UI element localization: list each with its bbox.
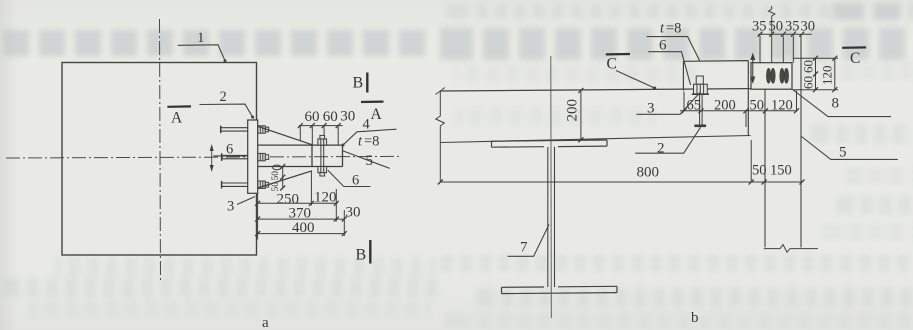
- seat bolt (fig a): [318, 135, 327, 176]
- nut and bolt end row 3: [258, 181, 269, 188]
- bracket plate (fig b elevation): [683, 61, 748, 136]
- end plate (fig b top view): [751, 63, 792, 89]
- svg-text:35: 35: [785, 19, 800, 35]
- bracket gusset bottom edge: [258, 171, 312, 188]
- double-headed arrow at plate: [750, 53, 755, 85]
- bracket gusset top edge: [258, 126, 312, 144]
- svg-text:50: 50: [769, 19, 784, 35]
- beam stub horizontal lines: [258, 145, 343, 166]
- svg-text:50: 50: [271, 182, 281, 192]
- svg-text:2: 2: [220, 89, 227, 105]
- girder top flange: [492, 140, 608, 147]
- nut and bolt end row 1: [258, 126, 269, 133]
- svg-text:60: 60: [801, 76, 816, 89]
- section mark A-A (right): [361, 102, 384, 123]
- wall bottom break: [764, 245, 818, 253]
- svg-text:50: 50: [271, 171, 281, 181]
- svg-text:B: B: [356, 247, 367, 264]
- section mark A-A (inside wall): [167, 106, 191, 126]
- svg-text:B: B: [353, 75, 364, 92]
- t=8 label (fig b) with leader: [647, 21, 700, 61]
- svg-text:8: 8: [832, 96, 840, 112]
- beam seat box: [312, 145, 343, 166]
- nut and bolt end row 2: [258, 153, 269, 160]
- svg-text:30: 30: [801, 19, 816, 35]
- svg-text:C: C: [607, 56, 617, 73]
- svg-text:50: 50: [750, 98, 765, 114]
- label 3 with leader: [227, 197, 255, 215]
- label 7 with leader: [508, 225, 549, 257]
- label 1 with leader: [178, 30, 227, 62]
- dimension row 370 30: [255, 205, 360, 222]
- label 4 with leader: [342, 117, 397, 147]
- label 2 with leader: [200, 89, 255, 119]
- caption b: [691, 310, 699, 326]
- svg-text:400: 400: [292, 220, 315, 236]
- svg-text:t: t: [660, 21, 665, 37]
- section mark C (right): [842, 47, 866, 67]
- beam left break line: [436, 88, 446, 183]
- wall front face line: [764, 89, 766, 247]
- bolt (fig b) head, nut and shank: [692, 76, 709, 127]
- dimension 35 50 35 30 (top right): [752, 19, 815, 63]
- svg-text:A: A: [171, 110, 183, 127]
- svg-text:120: 120: [314, 190, 337, 206]
- girder bottom flange: [502, 286, 618, 293]
- svg-text:60: 60: [305, 109, 320, 125]
- figure b : beam top line: [440, 89, 765, 92]
- svg-text:2: 2: [657, 141, 665, 157]
- svg-text:C: C: [850, 50, 860, 67]
- vertical dim 200 (beam depth): [565, 88, 584, 142]
- wall centerline above plate with break: [769, 6, 776, 63]
- dimension row 400: [255, 220, 347, 236]
- svg-text:3: 3: [227, 199, 234, 215]
- svg-text:4: 4: [363, 117, 371, 133]
- label 8 with leader: [793, 90, 892, 117]
- label 3 (fig b) with leader: [636, 93, 700, 117]
- end plate (fig a): [248, 120, 258, 193]
- vertical centerline of wall: [160, 19, 161, 283]
- label 6 (left, middle anchor bolt): [214, 142, 248, 158]
- section mark C (left) with cut line: [606, 54, 656, 90]
- svg-text:6: 6: [659, 38, 667, 54]
- anchor bolt row 1: [221, 126, 248, 134]
- bolt symbol 1 (slotted, plan): [767, 68, 776, 83]
- dimension 60 60 30 (top of bracket): [298, 109, 356, 145]
- svg-text:=8: =8: [666, 21, 681, 37]
- vertical dim 120: [820, 56, 838, 92]
- wall back face line: [800, 36, 802, 248]
- girder centerline: [550, 56, 553, 318]
- svg-text:b: b: [691, 310, 699, 326]
- bolt symbol 2 (slotted, plan): [780, 68, 789, 83]
- svg-text:30: 30: [346, 205, 361, 221]
- girder web: [548, 147, 555, 287]
- svg-text:120: 120: [820, 66, 835, 86]
- label 5 (fig b) with leader: [802, 137, 898, 161]
- svg-text:30: 30: [340, 109, 355, 125]
- slotted hole on gusset: [273, 165, 282, 170]
- anchor bolt row 3: [222, 181, 248, 189]
- svg-text:7: 7: [520, 240, 528, 256]
- beam bottom line: [441, 136, 751, 143]
- section mark B (top): [353, 73, 368, 93]
- svg-text:a: a: [262, 315, 269, 330]
- svg-text:150: 150: [770, 163, 792, 179]
- svg-text:50: 50: [752, 163, 767, 179]
- svg-text:35: 35: [752, 19, 767, 35]
- figure a : wall square: [62, 63, 257, 256]
- vertical dim 60 60: [793, 56, 838, 92]
- extension lines for bottom dims: [258, 172, 345, 240]
- horizontal centerline / beam axis: [6, 156, 400, 158]
- section mark B (bottom): [356, 240, 371, 264]
- label 2 (fig b) with leader: [635, 127, 700, 156]
- svg-text:1: 1: [197, 30, 205, 46]
- vertical dim 50 50 on gusset: [271, 164, 285, 192]
- label 5 with leader (fig a): [343, 151, 390, 169]
- svg-text:=8: =8: [364, 134, 379, 150]
- label 6 with leader (fig a right): [328, 170, 371, 188]
- dimension row 250 120: [255, 190, 339, 208]
- dimension row 65 200 50 120: [680, 91, 799, 128]
- svg-text:120: 120: [771, 98, 793, 114]
- small double-headed arrow on axis: [210, 144, 214, 172]
- t=8 label (fig a): [358, 134, 379, 150]
- svg-text:200: 200: [714, 98, 736, 114]
- dimension row 800 50 150: [438, 140, 805, 185]
- svg-text:t: t: [358, 134, 363, 150]
- svg-text:200: 200: [565, 99, 581, 122]
- svg-text:A: A: [371, 106, 383, 123]
- svg-text:5: 5: [839, 145, 847, 161]
- label 6 (fig b) with leader: [648, 38, 690, 86]
- caption a: [262, 315, 269, 330]
- anchor bolt row 2: [222, 153, 248, 161]
- bleed-through text rows: [0, 30, 425, 56]
- svg-text:800: 800: [637, 165, 660, 181]
- svg-text:60: 60: [801, 60, 816, 73]
- svg-text:60: 60: [323, 109, 338, 125]
